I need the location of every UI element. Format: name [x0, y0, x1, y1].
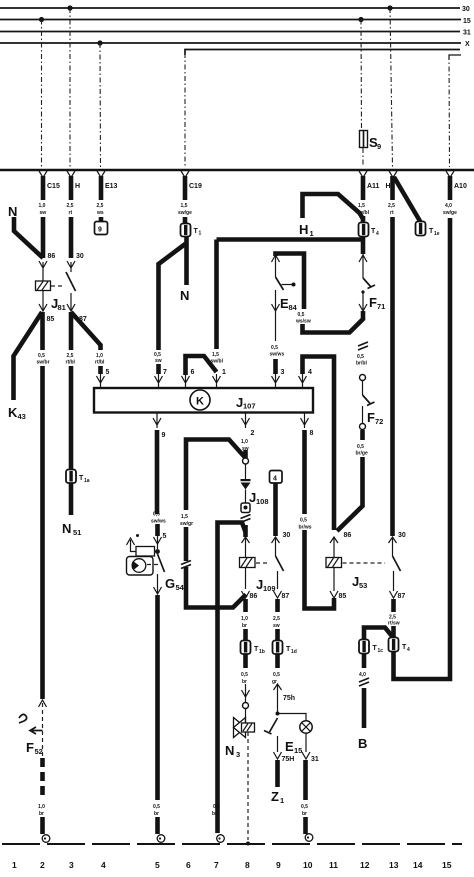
entry chevron C15 — [39, 171, 47, 178]
arrow pin3 — [272, 374, 280, 387]
svg-text:sw/ws: sw/ws — [270, 352, 285, 358]
svg-text:br: br — [242, 679, 247, 685]
wire F72 out upper — [360, 430, 365, 440]
wire F72 lower lead — [362, 406, 364, 423]
switch blade G54 — [158, 554, 165, 572]
bus 31 — [0, 31, 460, 33]
connector T1e — [416, 222, 426, 236]
svg-text:sw/ge: sw/ge — [443, 210, 457, 216]
wire resistor link — [155, 551, 158, 553]
ground circle track5 — [157, 835, 165, 843]
svg-text:sw/ge: sw/ge — [178, 210, 192, 216]
svg-text:G: G — [165, 576, 175, 591]
arrow plus G54 — [127, 538, 135, 545]
ground circle track2 — [42, 835, 50, 843]
wire pin5 stub — [98, 366, 103, 374]
svg-text:rt/bl: rt/bl — [95, 360, 105, 366]
connector T1a — [66, 470, 76, 484]
svg-text:6: 6 — [191, 369, 195, 376]
wire J108 lower lead — [245, 490, 247, 504]
svg-text:1,0: 1,0 — [38, 804, 45, 810]
arrow G54 in — [154, 536, 162, 549]
node dot on 15 at x41.5 — [39, 17, 44, 22]
svg-text:1,5: 1,5 — [181, 203, 188, 209]
wire T4 junction horizontal — [217, 236, 364, 254]
entry chevron H2 — [389, 171, 397, 178]
wire C19 lower — [183, 217, 188, 224]
wire H lower — [69, 217, 74, 258]
svg-text:ws: ws — [96, 210, 104, 216]
entry chevron A11 — [359, 171, 367, 178]
wire 87 to T1d — [275, 629, 280, 641]
wire 87 to T1a — [69, 366, 74, 470]
node dot on 30 at x390 — [387, 5, 392, 10]
wire 87 to T1d upper — [275, 599, 280, 612]
dashed N3 to ground — [247, 732, 249, 840]
ground circle track7 — [217, 835, 225, 843]
svg-text:87: 87 — [282, 593, 290, 600]
wire pin2 stub — [243, 450, 248, 458]
wire pin3 stub — [273, 359, 278, 374]
wire N lead — [14, 217, 43, 258]
wire x305 ground stub — [303, 817, 308, 834]
svg-text:sw/ws: sw/ws — [151, 519, 166, 525]
svg-text:Z: Z — [271, 789, 279, 804]
svg-text:2,5: 2,5 — [388, 203, 395, 209]
control unit J107 — [94, 388, 313, 413]
wire J109 coil bottom — [245, 568, 247, 590]
svg-text:81: 81 — [58, 303, 66, 312]
svg-text:4: 4 — [273, 476, 277, 483]
arrow out J109 87 — [274, 591, 282, 598]
svg-text:9: 9 — [377, 142, 381, 151]
svg-text:K: K — [196, 396, 204, 408]
crimp B — [359, 678, 369, 686]
box 4 terminal — [270, 471, 283, 484]
connector circle F72 top — [360, 375, 366, 381]
svg-text:87: 87 — [398, 593, 406, 600]
dot plus G54 — [136, 534, 139, 537]
arrow 75h — [274, 684, 282, 712]
wire T1 to N stub — [184, 236, 189, 285]
entry chevron A10 — [446, 171, 454, 178]
svg-text:0,5: 0,5 — [273, 672, 280, 678]
svg-text:2,5: 2,5 — [97, 203, 104, 209]
svg-text:2: 2 — [40, 860, 45, 870]
connector symbol J108 bottom — [241, 503, 250, 513]
svg-text:4,0: 4,0 — [359, 672, 366, 678]
wire drop H-left — [69, 8, 71, 167]
svg-text:C15: C15 — [47, 183, 60, 190]
detent E84 — [282, 284, 293, 286]
ground dot track8 — [246, 842, 250, 846]
wire to lamp E15 — [278, 714, 307, 721]
wire A10 hook — [449, 55, 461, 60]
svg-text:10: 10 — [303, 860, 313, 870]
svg-text:9: 9 — [98, 227, 102, 234]
wire pin4 jumper — [303, 357, 335, 531]
connector T1b — [241, 641, 251, 655]
wire C15 upper — [41, 176, 46, 200]
wire drop A11 upper — [360, 20, 363, 131]
wire T1d down — [275, 654, 280, 668]
wire H upper — [69, 176, 74, 200]
crimp J108 — [241, 515, 251, 523]
wire drop A10 — [448, 55, 451, 167]
wire T4 to A10 corner — [394, 218, 451, 679]
wire J81 coil bottom — [42, 291, 44, 310]
connector T4 lower — [389, 638, 399, 652]
svg-text:1,5: 1,5 — [212, 352, 219, 358]
wire J81 switch bottom — [70, 293, 72, 310]
entry chevron C19 — [181, 171, 189, 178]
wire T1c down — [362, 653, 367, 668]
wire Z1 lead — [277, 736, 279, 752]
ground rail — [2, 843, 462, 845]
svg-text:4: 4 — [308, 369, 312, 376]
connector T1c — [359, 640, 369, 654]
arrow into J109 switch — [272, 537, 280, 556]
svg-text:E13: E13 — [105, 183, 118, 190]
svg-text:7: 7 — [214, 860, 219, 870]
arrow pin6 — [182, 374, 190, 387]
wire T1a to N51 — [69, 483, 74, 515]
wire 85 down upper — [40, 312, 45, 350]
wire J108 out — [243, 525, 248, 537]
svg-text:12: 12 — [360, 860, 370, 870]
dashed link J81 — [51, 285, 64, 287]
wire x42 ground stub — [40, 817, 45, 834]
wire x157 ground stub — [155, 817, 160, 834]
wire 86 to T1b — [243, 629, 248, 641]
sensor G54 body — [127, 557, 154, 576]
switch contact J109 — [276, 556, 284, 571]
svg-text:7: 7 — [163, 369, 167, 376]
wire A11 upper — [361, 176, 366, 200]
svg-text:86: 86 — [344, 532, 352, 539]
svg-text:X: X — [465, 41, 470, 48]
svg-text:1: 1 — [222, 369, 226, 376]
svg-text:B: B — [358, 736, 367, 751]
connector T1 — [181, 224, 191, 237]
svg-text:br/ws: br/ws — [299, 525, 312, 531]
wire x186 mid — [184, 527, 189, 561]
key icon F52 — [19, 714, 27, 723]
svg-text:0,5: 0,5 — [38, 353, 45, 359]
arrow into J109 coil — [242, 537, 250, 557]
wire box4 down — [273, 483, 278, 536]
arrow pin5 — [97, 374, 105, 387]
svg-text:15: 15 — [294, 746, 302, 755]
resistor G54 — [136, 547, 155, 557]
svg-text:0,5: 0,5 — [213, 804, 220, 810]
wire 87 J53 to T4 — [391, 626, 396, 638]
wire E84 to pin3 — [275, 311, 277, 341]
arrow F71 down — [359, 292, 367, 311]
wire pin7 stub — [156, 364, 161, 374]
wire pin6-pin1 jumper — [186, 356, 217, 375]
wire pin8 to J53 85 — [305, 530, 335, 609]
fuse S9 — [360, 131, 368, 148]
relay coil J81 — [36, 281, 51, 291]
svg-text:1: 1 — [12, 860, 17, 870]
svg-text:1,5: 1,5 — [181, 514, 188, 520]
diode J108 — [241, 479, 251, 490]
svg-text:br: br — [212, 811, 217, 817]
svg-text:1b: 1b — [259, 649, 265, 655]
arrow F52 left — [30, 727, 43, 734]
connector T1d — [273, 641, 283, 655]
wire J109 switch bottom — [277, 571, 279, 589]
arrow pin8 — [301, 413, 309, 428]
svg-text:H: H — [299, 222, 308, 237]
svg-text:85: 85 — [339, 593, 347, 600]
wire F72 crimp — [358, 342, 368, 350]
wire 85 down long — [40, 366, 45, 699]
svg-text:0,5: 0,5 — [357, 354, 364, 360]
bus 30 — [0, 7, 460, 9]
arrow G54 out — [154, 574, 162, 594]
arrow into J81 30 — [67, 261, 75, 272]
wire drop C19 — [184, 53, 186, 167]
wire F72 out to J53 — [337, 457, 363, 531]
svg-text:14: 14 — [413, 860, 423, 870]
wire pin8 down — [302, 430, 307, 514]
svg-text:8: 8 — [310, 430, 314, 437]
svg-text:0,5: 0,5 — [153, 512, 160, 518]
svg-text:br: br — [154, 811, 159, 817]
svg-text:52: 52 — [35, 747, 43, 756]
wire resistor to plus — [131, 540, 137, 552]
svg-text:11: 11 — [329, 860, 338, 870]
thermo switch F71 — [363, 278, 375, 289]
svg-text:9: 9 — [162, 432, 166, 439]
wire pin9 down — [155, 430, 160, 514]
svg-text:53: 53 — [359, 581, 367, 590]
node dot on 15 at x361 — [358, 17, 363, 22]
svg-text:H: H — [75, 183, 80, 190]
svg-text:3: 3 — [236, 750, 240, 759]
wire C19 upper — [183, 176, 188, 200]
svg-text:A11: A11 — [367, 183, 380, 190]
svg-text:51: 51 — [73, 528, 81, 537]
dashed link J109 — [256, 562, 268, 564]
arrow out J109 86 — [242, 591, 250, 598]
wire T1b down — [243, 654, 248, 668]
svg-text:30: 30 — [76, 253, 84, 260]
wire pin1 vertical — [214, 240, 219, 350]
valve N3 — [234, 718, 255, 738]
svg-text:N: N — [8, 204, 17, 219]
arrow 75H — [274, 752, 282, 759]
svg-text:4: 4 — [101, 860, 106, 870]
svg-text:30: 30 — [283, 532, 291, 539]
svg-text:13: 13 — [389, 860, 399, 870]
wire 87 diagonal to pin5 — [71, 312, 101, 350]
dashed link J53 — [343, 562, 386, 564]
wire E13 lower — [99, 217, 104, 222]
svg-text:F: F — [367, 410, 375, 425]
arrow E84 up — [272, 255, 280, 277]
svg-text:30: 30 — [462, 6, 470, 13]
svg-text:br: br — [302, 811, 307, 817]
arrow pin1 — [213, 374, 221, 387]
svg-text:E: E — [285, 739, 294, 754]
svg-text:3: 3 — [281, 369, 285, 376]
wire H right down — [390, 176, 395, 200]
svg-text:1,5: 1,5 — [358, 203, 365, 209]
svg-text:H: H — [386, 183, 391, 190]
svg-text:br/bl: br/bl — [356, 361, 367, 367]
svg-text:8: 8 — [245, 860, 250, 870]
arrow 31 — [302, 752, 310, 759]
wire A11 stub — [361, 216, 366, 223]
wire H to T1e diagonal — [394, 177, 421, 222]
arrow pin7 — [155, 374, 163, 387]
svg-text:4,0: 4,0 — [445, 203, 452, 209]
svg-text:71: 71 — [377, 302, 385, 311]
svg-text:1: 1 — [199, 231, 202, 237]
wire drop C15 — [41, 20, 43, 168]
lamp E15 — [300, 721, 312, 733]
svg-text:1e: 1e — [434, 231, 440, 237]
wire to B — [362, 688, 367, 728]
svg-text:6: 6 — [186, 860, 191, 870]
bus X — [0, 42, 461, 44]
arrow N3 — [242, 684, 250, 702]
svg-text:0,5: 0,5 — [271, 345, 278, 351]
svg-text:75h: 75h — [283, 695, 295, 702]
svg-text:5: 5 — [106, 369, 110, 376]
svg-text:86: 86 — [250, 593, 258, 600]
arrow J53 85 — [330, 591, 338, 598]
main rail — [0, 169, 474, 172]
relay coil J53 — [326, 558, 342, 568]
svg-text:1,0: 1,0 — [96, 353, 103, 359]
wire 31 to ground — [303, 760, 308, 800]
switch contact J53 — [393, 556, 401, 571]
wire J53 switch bottom — [393, 571, 395, 591]
svg-text:2,5: 2,5 — [67, 203, 74, 209]
svg-text:108: 108 — [256, 497, 269, 506]
svg-text:4: 4 — [407, 647, 410, 653]
relay coil J109 — [240, 558, 256, 568]
connector circle N3 — [243, 703, 249, 709]
svg-text:0,5: 0,5 — [241, 672, 248, 678]
svg-text:rt/sw: rt/sw — [388, 621, 400, 627]
svg-text:15: 15 — [442, 860, 452, 870]
switch blade E84 — [276, 277, 284, 290]
svg-text:1: 1 — [310, 229, 314, 238]
wire pin9 stub2 — [155, 524, 160, 536]
svg-text:N: N — [225, 743, 234, 758]
wire T1 diagonal to x158 — [159, 243, 187, 350]
wire 87 J53 upper — [391, 599, 396, 612]
wire 87 to T1a upper — [69, 312, 74, 350]
wire 85 to K43 — [14, 312, 43, 400]
dashed link G54 — [147, 564, 159, 566]
svg-text:1,0: 1,0 — [241, 439, 248, 445]
svg-text:ws/sw: ws/sw — [295, 319, 311, 325]
svg-text:72: 72 — [375, 417, 383, 426]
svg-text:5: 5 — [163, 533, 167, 540]
svg-text:0,5: 0,5 — [300, 518, 307, 524]
arrow out J81 87 — [67, 304, 75, 311]
svg-text:sw/br: sw/br — [37, 360, 50, 366]
arrow F71 up — [359, 254, 367, 278]
wire C15 lower — [41, 217, 46, 258]
svg-text:rt: rt — [69, 210, 73, 216]
connector T4 upper — [359, 223, 369, 237]
switch contact Z1 — [264, 718, 278, 734]
svg-text:1d: 1d — [291, 649, 297, 655]
svg-text:1: 1 — [280, 796, 284, 805]
arrow into J81 86 — [39, 261, 47, 281]
svg-text:N: N — [62, 521, 71, 536]
arrow E84 down — [272, 290, 280, 311]
svg-text:30: 30 — [398, 532, 406, 539]
svg-text:K: K — [8, 405, 18, 420]
svg-text:0,5: 0,5 — [153, 804, 160, 810]
entry chevron E13 — [97, 171, 105, 178]
ground circle track10 — [305, 834, 313, 842]
wire T1c jumper — [364, 628, 394, 641]
svg-text:0,5: 0,5 — [301, 804, 308, 810]
connector circle J108 top — [243, 458, 249, 464]
circled K — [190, 390, 210, 410]
node dot 75h — [276, 712, 280, 716]
wire F52 dash lower — [40, 758, 45, 800]
svg-text:N: N — [180, 288, 189, 303]
svg-text:sw/gr: sw/gr — [180, 521, 193, 527]
node dot on 30 at x70 — [67, 5, 72, 10]
node dot F71 — [361, 290, 364, 293]
svg-text:1c: 1c — [378, 648, 384, 654]
wire E15 bottom lead — [305, 733, 307, 752]
svg-text:54: 54 — [176, 583, 185, 592]
arrow out J81 85 — [39, 304, 47, 311]
wire drop E13 — [99, 43, 102, 167]
svg-text:2: 2 — [251, 430, 255, 437]
svg-text:15: 15 — [463, 18, 471, 25]
svg-text:sw: sw — [273, 623, 280, 629]
box 9 terminal — [95, 222, 108, 235]
svg-text:85: 85 — [47, 316, 55, 323]
switch contact J81 — [66, 272, 76, 291]
svg-text:1,0: 1,0 — [39, 203, 46, 209]
arrow F52 up — [39, 700, 47, 707]
wire N3 top lead — [245, 709, 247, 724]
svg-text:3: 3 — [69, 860, 74, 870]
svg-text:86: 86 — [48, 253, 56, 260]
svg-text:1,0: 1,0 — [241, 616, 248, 622]
switch E84 housing — [276, 254, 305, 310]
svg-text:C19: C19 — [189, 183, 202, 190]
wire Z1 — [275, 760, 280, 787]
svg-text:sw: sw — [40, 210, 47, 216]
wire H1-feed corner — [186, 440, 246, 511]
wire J108 upper lead — [245, 464, 247, 479]
svg-text:A10: A10 — [454, 183, 467, 190]
svg-text:75H: 75H — [282, 756, 295, 763]
wire F72 upper lead — [362, 381, 364, 395]
svg-text:2,5: 2,5 — [67, 353, 74, 359]
arrow out J53 87 — [390, 591, 398, 598]
svg-text:9: 9 — [276, 860, 281, 870]
svg-text:31: 31 — [463, 30, 471, 37]
wire 86 to T1b upper — [243, 599, 248, 612]
svg-text:31: 31 — [311, 756, 319, 763]
